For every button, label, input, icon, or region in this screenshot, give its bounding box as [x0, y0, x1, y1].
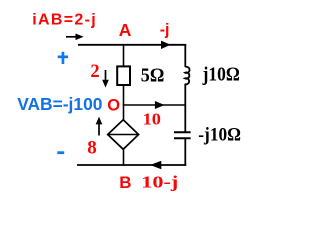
wire right vertical lower [184, 139, 186, 166]
wire diamond to bottom wire [123, 149, 125, 166]
arrow 2 down (resistor current) [102, 70, 109, 88]
svg-text:iAB=2-j: iAB=2-j [32, 11, 95, 28]
wire resistor to node O and diamond [123, 85, 125, 121]
arrow on top wire (-j current) [161, 41, 171, 49]
wire middle horizontal O to right branch [123, 104, 186, 106]
label minus [57, 151, 64, 154]
svg-text:B: B [119, 173, 131, 192]
wire bottom horizontal B [77, 164, 186, 166]
arrow on middle wire (10 current) [155, 101, 165, 109]
wire right vertical upper [184, 44, 186, 67]
dependent source diamond [108, 120, 139, 150]
svg-text:10-j: 10-j [141, 173, 178, 192]
capacitor -j10 top plate [174, 131, 191, 133]
arrow on bottom wire (10-j current) [150, 161, 161, 169]
wire top horizontal A [78, 44, 186, 46]
svg-text:5Ω: 5Ω [141, 65, 165, 86]
arrow 8 up (source current) [96, 117, 103, 136]
label + [58, 52, 68, 64]
svg-text:-j10Ω: -j10Ω [198, 124, 241, 145]
inductor j10 coil [185, 67, 190, 85]
svg-text:8: 8 [87, 138, 97, 159]
wire right vertical middle [184, 84, 186, 132]
iAB current arrow [66, 34, 84, 41]
svg-text:2: 2 [90, 62, 99, 82]
capacitor -j10 bottom plate [174, 137, 191, 139]
wire from A down to resistor [123, 44, 125, 67]
svg-text:-j: -j [160, 22, 170, 39]
svg-text:VAB=-j100: VAB=-j100 [17, 94, 102, 114]
svg-text:j10Ω: j10Ω [202, 64, 240, 85]
svg-text:O: O [107, 97, 120, 115]
svg-text:A: A [119, 20, 132, 40]
resistor R 5ohm box [117, 66, 130, 85]
svg-text:10: 10 [143, 110, 161, 129]
